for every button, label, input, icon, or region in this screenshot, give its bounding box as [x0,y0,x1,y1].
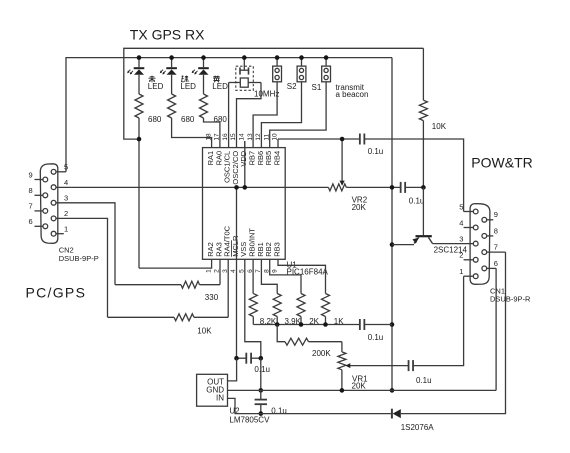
svg-text:S2: S2 [287,82,297,91]
potentiometer VR2 20K [328,139,346,191]
resistor 330 [181,281,200,288]
wire pin8 to 2K [270,259,301,293]
CN1 pin6 stub [487,267,496,269]
svg-text:9: 9 [272,269,279,273]
capacitor 0.1u (MCLR) [245,353,247,364]
svg-text:a beacon: a beacon [336,90,369,99]
regulator U2 LM7805CV body [197,374,228,406]
svg-text:0.1u: 0.1u [368,147,384,156]
CN1 pin2 stub [464,259,473,261]
wire diode to CN1 pin7 [401,252,506,414]
resistor 2K [297,294,305,317]
CN2 pin 4 circle [51,185,56,190]
LED yellow (黄 LED) [192,58,209,94]
svg-text:9: 9 [29,170,33,179]
svg-text:11: 11 [263,133,270,140]
svg-text:0.1u: 0.1u [409,196,425,205]
svg-text:1: 1 [205,269,212,273]
svg-text:4: 4 [459,218,463,227]
CN1 pin1 stub [464,275,473,277]
CN2 pin 7 circle [43,209,48,214]
CN2 pin1 stub [56,233,64,235]
switch S1 [297,58,306,82]
wire VDD pin14 vertical [244,141,246,187]
svg-text:POW&TR: POW&TR [471,155,532,171]
wire LED1/RA2 to pin1 [139,259,212,268]
CN1 pin 6 circle [482,266,487,271]
svg-text:5: 5 [64,163,68,172]
wire cap to 10K column [405,186,423,188]
wire pin7 to 3.9K [261,259,277,293]
switch beacon pushbutton [322,58,331,82]
svg-text:LED: LED [148,82,164,91]
CN2 pin 2 circle [51,216,56,221]
svg-text:0.1u: 0.1u [368,333,384,342]
svg-text:LED: LED [180,82,196,91]
CN1 pin4 stub [464,227,473,229]
wire VDD to MCLR vertical [236,187,238,358]
CN1 pin5 stub [464,211,473,213]
wire cap to CN1 pin1 [413,276,464,365]
CN1 pin 4 circle [473,225,478,230]
node VDD junction dots [234,185,239,190]
resistor 3.9K [273,294,281,317]
svg-text:LM7805CV: LM7805CV [229,416,270,425]
CN1 pin9 stub [487,219,493,221]
CN2 pin 8 circle [43,193,48,198]
svg-text:330: 330 [205,293,219,302]
svg-text:LED: LED [212,82,228,91]
wire ground top rail [66,58,392,172]
wire LED3 to pin17 [204,118,220,148]
capacitor 0.1u (VR1 wiper) [408,360,410,371]
wire collector to CN1 pin3 [433,243,473,245]
switch S2 [273,58,282,82]
resistor 200K [285,338,309,345]
svg-text:1: 1 [459,267,463,276]
capacitor 0.1u (bus) [359,319,361,330]
svg-text:680: 680 [181,115,195,124]
resistor 680 (yellow LED) [200,94,208,118]
crystal resonator X1 10MHz [229,58,261,91]
resistor 680 (red LED) [135,94,143,118]
svg-text:2: 2 [64,209,68,218]
wire GND to ground rail [228,389,497,391]
svg-text:6: 6 [29,217,33,226]
wire RB4 pin10 to CN1 pin5 [277,139,279,148]
node RA2/LED1 junction [137,137,142,142]
wire resistor bus [253,324,359,326]
wire resonator left to pin16 [228,83,230,148]
wire VSS column to ground wire [260,358,262,390]
capacitor 0.1u (RB4 wire) [359,134,361,145]
node rail junctions [137,55,142,60]
capacitor 0.1u (on VDD wire) [400,182,402,193]
svg-text:680: 680 [148,115,162,124]
resistor 10K (serial) [174,314,194,321]
CN2 pin 6 circle [43,224,48,229]
CN1 pin 3 circle [473,241,478,246]
CN2 pin3 wire [56,203,115,285]
svg-text:4: 4 [64,178,68,187]
resistor 8.2K [249,294,257,317]
svg-text:5: 5 [459,202,463,211]
connector CN2 DSUB-9P-P shell [40,164,58,244]
svg-text:7: 7 [494,243,498,252]
svg-text:10K: 10K [432,122,447,131]
svg-text:RB3: RB3 [272,242,281,257]
svg-text:17: 17 [214,133,221,141]
svg-text:6: 6 [494,259,498,268]
wire switch 1 to IC [253,82,277,148]
CN1 pin8 stub [487,235,493,237]
wire VSS pin5 down [245,259,261,358]
wire VR1 wiper to cap [350,365,409,367]
label yellow LED [213,76,220,83]
CN1 pin 1 circle [473,274,478,279]
wire switch 3 to IC [270,82,326,148]
svg-text:15: 15 [230,133,237,141]
svg-text:3: 3 [459,234,463,243]
label red LED [149,76,156,83]
svg-text:PC/GPS: PC/GPS [26,284,87,300]
capacitor 0.1u (regulator out, vertical) [260,390,262,399]
op IC U1 PIC16F84A body [203,148,286,260]
transistor Q1 2SC1214 [412,187,432,243]
wire emitter to ground column [392,244,414,246]
wire cap right to VSS column [251,357,261,359]
wire pin9 to 1K [278,259,326,293]
CN2 left stubs pins 9-6 [35,179,43,181]
svg-text:7: 7 [29,202,33,211]
svg-text:3: 3 [64,194,68,203]
wire cap to CN1 pin5 corner [364,139,463,212]
connector CN1 DSUB-9P-R shell [470,204,490,285]
wire ground column [391,58,393,391]
CN2 pin 3 circle [51,200,56,205]
svg-text:9: 9 [494,210,498,219]
wire VDD-side inner rail (node RA2 net) [124,48,424,139]
wire switch 2 to IC [261,82,301,148]
CN2 pin2 wire [56,218,107,317]
wire bus to 200K [277,325,285,342]
wire pin6 to 8.2K [252,259,254,293]
svg-text:8: 8 [29,186,33,195]
CN1 pin 2 circle [473,257,478,262]
resistor 10K (base) [419,100,427,120]
wire ground rail to CN1 pin6 [495,268,497,390]
wire resonator right to pin15 [237,83,262,148]
svg-text:10MHz: 10MHz [254,89,279,98]
label green LED [181,76,188,83]
CN2 pin5 wire to ground rail [56,171,66,173]
svg-text:IN: IN [216,394,224,403]
svg-text:0.1u: 0.1u [254,365,270,374]
svg-text:200K: 200K [312,349,331,358]
CN1 pin 9 circle [482,217,487,222]
CN2 pin 5 circle [51,169,56,174]
MCLR overline [231,240,233,257]
svg-text:20K: 20K [352,203,367,212]
svg-text:1: 1 [64,225,68,234]
svg-text:RB4: RB4 [272,151,281,166]
diode D1 1S2076A [392,409,401,419]
svg-text:10K: 10K [197,326,212,335]
wire CN2 pin4 to VR2 (VDD node) [56,186,328,188]
svg-text:13: 13 [247,133,254,141]
wire LED1 column to pin1 [138,118,140,268]
wire OUT to 5V node [228,358,237,381]
pin 14 stub [244,141,246,148]
potentiometer VR1 20K [338,342,350,391]
svg-text:18: 18 [205,133,212,141]
svg-text:DSUB-9P-R: DSUB-9P-R [490,294,531,303]
CN1 pin 5 circle [473,209,478,214]
svg-text:0.1u: 0.1u [416,376,432,385]
resistor 680 (green LED) [168,94,176,118]
resistor 1K [322,294,330,317]
svg-text:16: 16 [222,133,229,141]
LED green (緑 LED) [160,58,177,94]
svg-text:20K: 20K [352,382,367,391]
svg-text:8: 8 [494,226,498,235]
CN2 pin 1 circle [51,231,56,236]
CN1 pin7 stub [487,251,506,253]
wire VR2 to cap [346,186,400,188]
svg-text:12: 12 [255,133,262,141]
CN2 pin 9 circle [43,177,48,182]
LED red (赤 LED) [127,58,144,94]
svg-text:S1: S1 [312,83,322,92]
svg-text:1S2076A: 1S2076A [401,423,435,432]
svg-text:2: 2 [459,251,463,260]
wire IN to bottom rail [228,398,391,413]
svg-text:TX GPS RX: TX GPS RX [130,26,205,42]
svg-text:DSUB-9P-P: DSUB-9P-P [59,254,99,263]
wire MCLR cap left [237,357,247,359]
wire LED2 to pin18 [172,118,212,148]
CN1 pin 8 circle [482,234,487,239]
CN1 pin 7 circle [482,250,487,255]
node VR2 wiper junction [340,137,345,142]
svg-text:14: 14 [239,133,246,141]
